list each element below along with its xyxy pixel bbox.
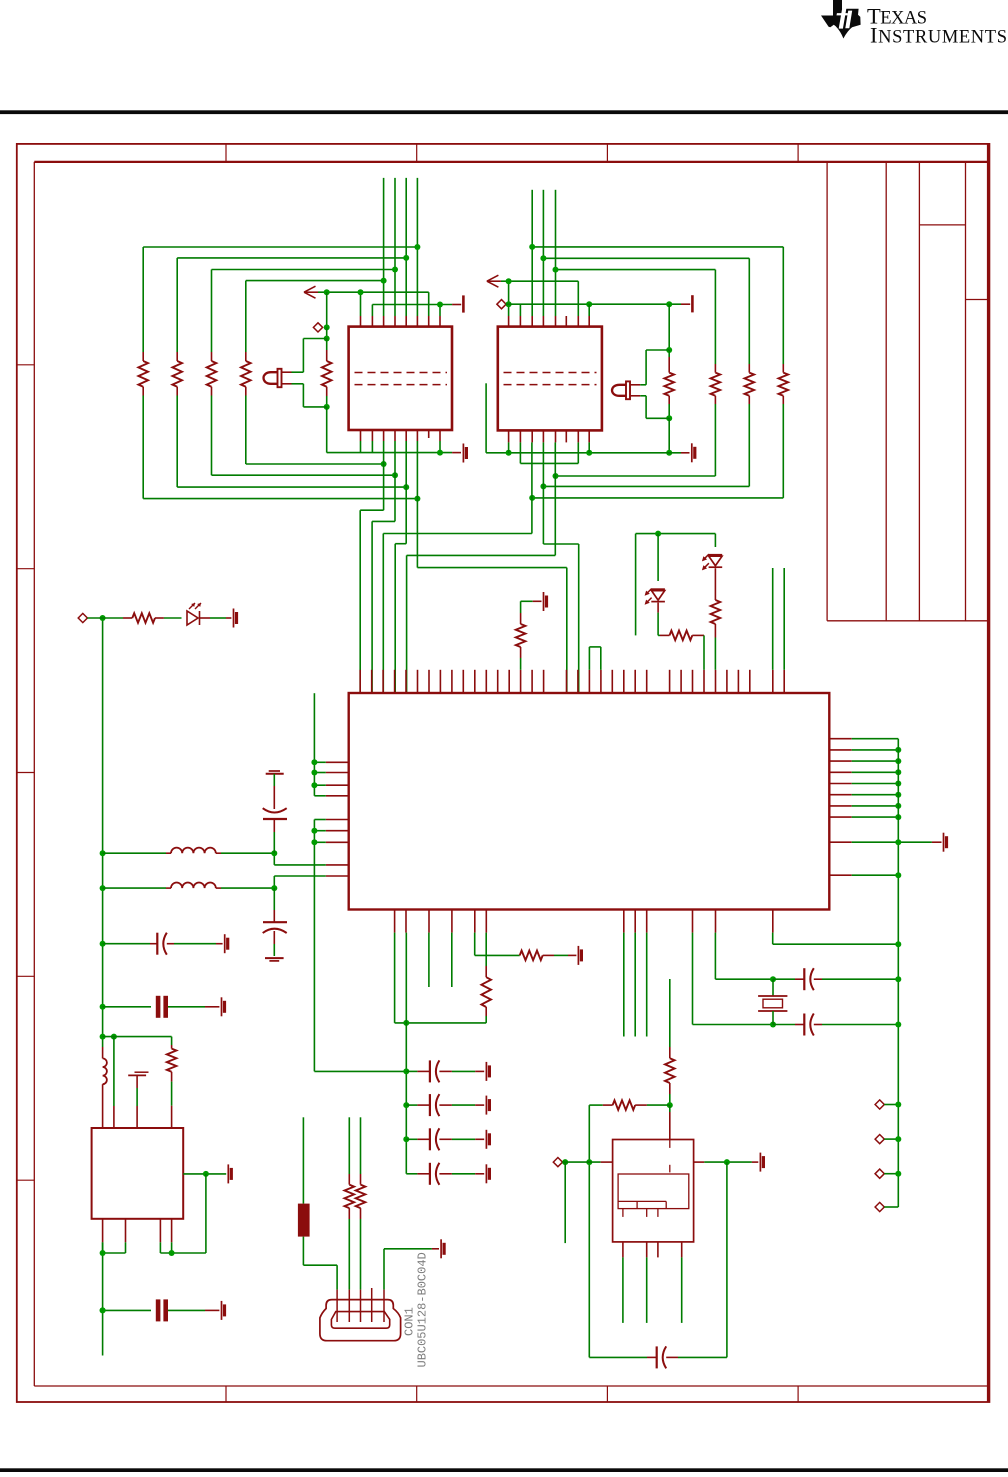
svg-text:UBC05U128-B0C04D: UBC05U128-B0C04D	[416, 1252, 430, 1367]
svg-text:CON1: CON1	[403, 1307, 417, 1336]
